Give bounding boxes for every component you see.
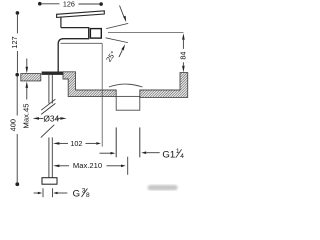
dimension diameter 34 [33, 113, 67, 123]
dimension 102 [53, 139, 101, 148]
threaded rod [49, 75, 52, 104]
svg-text:G: G [73, 188, 80, 199]
spout tip box [90, 29, 101, 38]
faucet neck [60, 17, 62, 28]
hose end fitting G3/8 [42, 178, 57, 185]
svg-text:8: 8 [86, 192, 90, 199]
svg-text:126: 126 [63, 0, 75, 9]
dimension 400 [8, 77, 19, 187]
angle 25 degrees rays [106, 23, 129, 42]
svg-text:Max.45: Max.45 [22, 104, 31, 129]
dimension 126 [38, 0, 103, 9]
drain tailpipe G1 1/4 [116, 127, 140, 157]
svg-text:84: 84 [178, 52, 187, 60]
dimension G3/8 [34, 187, 90, 199]
svg-text:127: 127 [10, 36, 19, 48]
faucet handle lever [57, 11, 105, 18]
dimension 84 with spout reference line [108, 33, 187, 73]
hose break mark lower [41, 125, 54, 138]
dimension 127 [10, 11, 19, 76]
counter slab left (hatched cross-section) [21, 74, 41, 81]
angle 25 degrees label [104, 49, 118, 63]
svg-text:G1: G1 [162, 149, 175, 160]
dimension G1 1/4 [100, 148, 185, 160]
watermark [148, 185, 178, 190]
svg-text:Max.210: Max.210 [73, 161, 102, 170]
svg-text:4: 4 [180, 153, 184, 160]
faucet body outline [58, 28, 88, 72]
svg-text:400: 400 [8, 119, 17, 131]
pop-up plug dome arc [109, 84, 142, 87]
flexible hose [49, 137, 52, 178]
dimension Max.210 [53, 157, 128, 175]
bidet rim right column (hatched) [140, 73, 188, 98]
spout tip extension line [61, 43, 103, 146]
faucet base flange [42, 72, 64, 75]
bidet deck and bowl cross-section (hatched steps) [63, 72, 116, 97]
angle 25 degrees leader arrows [119, 6, 126, 58]
hose break marks upper [41, 99, 55, 114]
pop-up waste body below drain [116, 96, 140, 110]
svg-text:102: 102 [70, 139, 82, 148]
dimension Max.45 [22, 59, 31, 129]
